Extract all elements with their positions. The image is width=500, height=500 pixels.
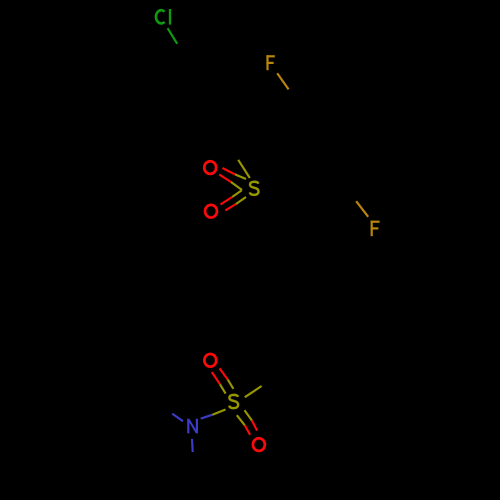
bond N-CH3 (N half)	[172, 414, 183, 422]
bond S2=O4 line G red half	[245, 425, 250, 435]
bond S2=O4 line G olive half	[237, 415, 245, 425]
bond S1=O1 line A red half	[223, 168, 236, 174]
bond S2=O3 line E red half	[212, 372, 220, 384]
bond S2=O3 line E olive half	[220, 384, 226, 393]
bond S2=O3 line F olive half	[228, 380, 234, 389]
bond S2=O3 line F red half	[220, 368, 228, 379]
bond S1=O1 line A olive half	[235, 174, 246, 179]
bond F2-C (F half)	[356, 201, 368, 217]
bond F1-C (F half)	[277, 73, 288, 89]
bond S2=O4 line H red half	[252, 420, 257, 430]
atom label S2	[229, 395, 238, 408]
atom label Cl	[156, 9, 170, 25]
atom label F2	[371, 221, 380, 237]
bond S1=O1 line B olive half	[231, 182, 242, 190]
bond S1=O2 line C olive half	[232, 190, 242, 197]
bond Cl-C (Cl half)	[168, 28, 178, 44]
bond S1-C aryl (S half)	[238, 160, 250, 178]
atom label O2	[205, 205, 217, 218]
bond S1=O2 line D olive half	[236, 197, 246, 204]
bond S1=O2 line D red half	[225, 204, 236, 210]
bond N-S2 (S half)	[212, 410, 225, 415]
bond N-C down (N half)	[191, 439, 194, 452]
bond S2=O4 line H olive half	[245, 410, 252, 420]
atom label O1	[204, 161, 216, 174]
atom label F1	[266, 55, 274, 70]
atom label O4	[253, 438, 265, 451]
bond S1=O2 line C red half	[221, 197, 233, 205]
bond N-S2 (N half)	[201, 415, 213, 419]
bond S1=O1 line B red half	[219, 175, 231, 183]
atom label S1	[250, 182, 259, 195]
atom label N	[188, 419, 197, 434]
atom label O3	[204, 354, 216, 367]
bond S2-C alkyl (S half)	[245, 386, 262, 397]
